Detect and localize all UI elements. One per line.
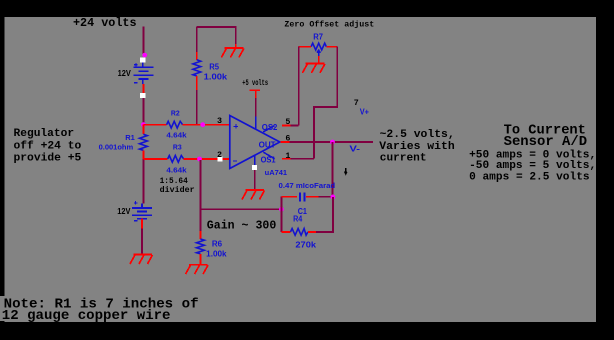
wire output to right — [289, 141, 373, 143]
wire R6 top red stub — [199, 231, 201, 239]
wire R3 input line — [143, 158, 167, 160]
B2 plus mark — [134, 201, 138, 204]
svg-text:+24 volts: +24 volts — [73, 16, 137, 30]
wire +24 feed down to node — [142, 26, 144, 54]
svg-text:divider: divider — [160, 186, 195, 195]
wire cap branch up from gain node — [280, 197, 282, 210]
svg-text:270k: 270k — [295, 241, 316, 250]
wire R5 down to pin3 line — [196, 90, 198, 124]
svg-text:provide +5: provide +5 — [14, 153, 82, 165]
svg-text:4.64k: 4.64k — [166, 131, 187, 140]
node junction dot R2 tap — [141, 122, 146, 127]
svg-text:OS2: OS2 — [262, 123, 278, 132]
op-amp U1 triangle — [230, 116, 280, 169]
svg-text:-50 amps = 5 volts,: -50 amps = 5 volts, — [469, 160, 596, 172]
wire pin 5 to R7 leg — [291, 124, 299, 126]
svg-text:R5: R5 — [209, 63, 219, 72]
svg-text:1: 1 — [285, 151, 290, 161]
op-amp OS1 pin diagonal — [263, 152, 274, 159]
battery B2 12V — [132, 204, 152, 219]
wire top horizontal to ground G1 — [197, 27, 236, 44]
op-amp plus input mark — [234, 124, 239, 129]
ground G4 below B2 — [130, 254, 153, 264]
resistor R2 — [167, 121, 183, 128]
wire R7 right red stub — [326, 46, 337, 48]
svg-text:3: 3 — [217, 116, 222, 126]
wire pin 1 to R7 leg — [291, 158, 314, 160]
svg-text:4.64k: 4.64k — [166, 165, 187, 174]
svg-text:0.47 mIcoFarad: 0.47 mIcoFarad — [279, 181, 336, 190]
wire R3 node down to B2 — [142, 159, 144, 204]
white pin marker above B1 — [140, 58, 145, 63]
svg-text:2: 2 — [217, 150, 222, 160]
wire R7 right leg step to pin 1 — [314, 47, 337, 159]
wire R5 bottom red stub — [196, 76, 198, 90]
wire wiper to ground — [318, 56, 320, 63]
wire R2 input line — [143, 124, 166, 126]
ground G2 below op-amp — [242, 190, 265, 200]
wire B1 bottom red stub — [142, 84, 144, 93]
wire R4 right red stub — [308, 231, 316, 233]
node junction dot cap right — [331, 195, 336, 200]
wire R5 top red stub — [196, 52, 198, 60]
svg-text:1.00k: 1.00k — [206, 250, 227, 259]
svg-text:12 gauge copper wire: 12 gauge copper wire — [2, 309, 171, 324]
svg-text:uA741: uA741 — [265, 168, 287, 177]
svg-text:R1: R1 — [125, 133, 135, 142]
svg-text:1:5.64: 1:5.64 — [160, 177, 188, 186]
node junction dot on output — [330, 140, 335, 145]
B1 plus mark — [134, 63, 138, 66]
resistor R6 — [197, 239, 205, 254]
B1 minus mark — [134, 82, 138, 84]
resistor R1 (vertical shunt) — [140, 134, 148, 150]
pin 4 down arrow — [345, 168, 347, 174]
R7 wiper arrow — [317, 50, 321, 56]
wire R1 bottom to R3 node — [142, 150, 144, 159]
svg-text:6: 6 — [285, 133, 290, 143]
svg-text:OUT: OUT — [259, 140, 276, 149]
B2 minus mark — [134, 220, 138, 222]
svg-text:1.00k: 1.00k — [204, 73, 228, 82]
svg-text:0.001ohm: 0.001ohm — [99, 143, 134, 152]
svg-text:Gain ~ 300: Gain ~ 300 — [207, 220, 277, 233]
wire C1 to right node — [319, 196, 333, 198]
white pin marker below B1 — [140, 93, 145, 98]
svg-text:~2.5 volts,: ~2.5 volts, — [380, 129, 455, 141]
wire +5 red stub — [255, 90, 257, 98]
resistor R5 — [193, 60, 201, 76]
wire pin 5 red stub — [282, 124, 291, 126]
wire R7 left red stub — [299, 46, 311, 48]
wire feedback vertical from pin2 node — [199, 160, 201, 231]
wire +5 to V+ pin — [255, 98, 257, 117]
wire output pin 6 red stub — [281, 141, 290, 143]
svg-text:R7: R7 — [313, 33, 323, 42]
svg-text:12V: 12V — [117, 206, 130, 216]
potentiometer R7 — [311, 43, 326, 50]
white pin marker on pin 2 — [217, 157, 222, 162]
svg-text:12V: 12V — [118, 68, 131, 78]
ground G5 on R7 wiper — [302, 63, 325, 73]
battery B1 12V — [134, 62, 154, 84]
resistor R3 — [168, 156, 184, 163]
wire gain node horizontal — [200, 208, 281, 210]
svg-text:0 amps = 2.5 volts: 0 amps = 2.5 volts — [469, 172, 589, 184]
wire R3 to pin 2 — [184, 158, 230, 160]
node junction dot above B1 — [142, 53, 147, 58]
wire red stub into G1 — [235, 44, 237, 48]
wire C1 right red stub — [306, 196, 319, 198]
svg-text:+5 volts: +5 volts — [242, 78, 268, 88]
wire B1 to R1 node — [142, 98, 144, 124]
wire V- to ground — [254, 170, 256, 190]
white pin marker on V- — [252, 165, 257, 170]
svg-text:R2: R2 — [171, 109, 180, 118]
op-amp OS2 pin diagonal — [263, 126, 274, 132]
svg-text:V-: V- — [349, 144, 360, 153]
wire node to R1 top — [142, 125, 144, 135]
node junction dot on pin2 line — [197, 157, 202, 162]
ground G1 — [221, 48, 244, 58]
op-amp V+ pin stub — [255, 117, 257, 130]
svg-text:Varies with: Varies with — [379, 141, 455, 153]
svg-text:R4: R4 — [293, 215, 303, 224]
wire pin 1 red stub — [282, 158, 291, 160]
wire R7 left leg down to pin 5 — [298, 47, 300, 126]
wire R6 bottom red stub — [199, 254, 201, 265]
wire B2 to ground — [141, 229, 143, 255]
wire output down to RC network — [332, 142, 334, 197]
svg-text:Zero Offset adjust: Zero Offset adjust — [284, 19, 374, 29]
op-amp minus input mark — [233, 160, 237, 162]
svg-text:Regulator: Regulator — [14, 128, 75, 140]
ground G3 below R6 — [186, 265, 209, 275]
node junction dot on pin3 line — [200, 122, 205, 127]
svg-text:off +24 to: off +24 to — [14, 140, 82, 152]
+5 supply bar — [250, 89, 261, 91]
wire R4 branch left vertical — [280, 209, 282, 232]
wire R2 to pin 3 — [183, 124, 230, 126]
svg-text:OS1: OS1 — [261, 155, 277, 164]
wire R4 left red stub — [281, 231, 290, 233]
svg-text:R6: R6 — [212, 239, 223, 248]
svg-text:V+: V+ — [360, 108, 370, 117]
wire B2 bottom red stub — [141, 219, 143, 229]
resistor R4 — [291, 229, 308, 236]
node junction dot gain left — [279, 207, 284, 212]
svg-text:Sensor A/D: Sensor A/D — [504, 135, 587, 150]
wire R4 to right node — [316, 197, 333, 232]
wire C1 left red stub — [281, 196, 297, 198]
capacitor C1 — [300, 192, 304, 201]
op-amp V- pin stub — [254, 155, 256, 165]
gray notch at bottom-left under note text — [0, 296, 5, 321]
svg-text:7: 7 — [354, 98, 359, 108]
svg-text:5: 5 — [285, 117, 290, 127]
wire R5 top vertical — [196, 27, 198, 52]
svg-text:R3: R3 — [173, 142, 182, 151]
svg-text:current: current — [380, 152, 427, 164]
